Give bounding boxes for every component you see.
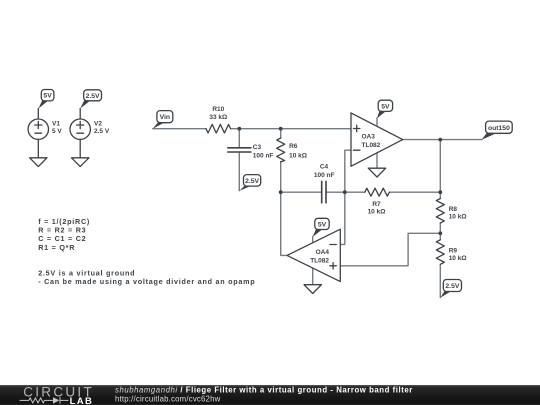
svg-text:10 kΩ: 10 kΩ xyxy=(368,209,386,216)
wire R6 leads xyxy=(280,129,282,138)
wire node to C4 xyxy=(281,191,321,193)
svg-text:TL082: TL082 xyxy=(310,257,329,264)
svg-text:shubhamgandhi / Fliege Filter: shubhamgandhi / Fliege Filter with a vir… xyxy=(115,385,413,394)
node at output xyxy=(438,138,442,142)
wire R9 leads and down to 2.5V flag xyxy=(439,233,441,240)
svg-text:5V: 5V xyxy=(43,93,52,100)
svg-text:Vin: Vin xyxy=(160,114,170,121)
ground (V2) xyxy=(72,158,89,167)
wire V2 to ground xyxy=(79,139,81,157)
wire node to R7 and R7 to node xyxy=(345,191,365,193)
svg-text:http://circuitlab.com/cvc62hw: http://circuitlab.com/cvc62hw xyxy=(115,395,221,404)
voltage source V1 xyxy=(28,109,62,140)
node R6 bottom xyxy=(279,190,283,194)
OA4 top power pin xyxy=(312,237,314,243)
wire V1 to ground xyxy=(37,139,39,157)
power flag 5V (OA3) xyxy=(377,100,393,118)
resistor R9 xyxy=(436,240,466,264)
wire OA3 output to out150 xyxy=(403,139,482,141)
svg-text:out150: out150 xyxy=(488,125,510,132)
svg-text:100 nF: 100 nF xyxy=(314,172,335,179)
svg-text:10 kΩ: 10 kΩ xyxy=(449,214,467,221)
ground (OA4) xyxy=(304,285,321,294)
svg-text:2.5V: 2.5V xyxy=(245,178,259,185)
svg-text:R9: R9 xyxy=(449,248,458,255)
OA3 bottom power pin xyxy=(376,153,378,168)
net flag out150 xyxy=(482,121,513,140)
voltage source V2 xyxy=(70,109,110,140)
svg-text:R6: R6 xyxy=(289,143,298,150)
svg-text:C4: C4 xyxy=(320,163,329,170)
svg-text:OA4: OA4 xyxy=(316,249,330,256)
net flag Vin xyxy=(153,111,173,129)
resistor R6 xyxy=(277,138,307,162)
ground (OA3) xyxy=(368,168,385,177)
power flag 2.5V (R9) xyxy=(440,280,461,298)
svg-text:V2: V2 xyxy=(94,120,102,127)
op-amp OA3 xyxy=(351,113,403,166)
svg-text:R8: R8 xyxy=(449,206,458,213)
svg-text:LAB: LAB xyxy=(70,396,94,405)
resistor R10 xyxy=(206,106,231,133)
wire R8 leads xyxy=(439,192,441,198)
OA3 top power pin xyxy=(376,118,378,127)
svg-text:5V: 5V xyxy=(318,222,327,229)
capacitor C3 xyxy=(228,144,274,159)
svg-text:C3: C3 xyxy=(253,144,262,151)
power flag 5V (OA4) xyxy=(313,218,329,237)
svg-text:100 nF: 100 nF xyxy=(253,153,274,160)
svg-text:R7: R7 xyxy=(372,201,381,208)
node R8/R9/feedback xyxy=(438,231,442,235)
svg-text:R10: R10 xyxy=(212,106,224,113)
svg-text:10 kΩ: 10 kΩ xyxy=(289,153,307,160)
wire output node down to R7 node xyxy=(439,140,441,193)
power flag 2.5V (C3) xyxy=(239,175,260,191)
node at R10/C3 xyxy=(237,127,241,131)
note text xyxy=(38,217,255,286)
svg-text:TL082: TL082 xyxy=(362,142,381,149)
CircuitLab logo xyxy=(20,384,94,405)
svg-text:5V: 5V xyxy=(381,104,390,111)
svg-text:2.5V: 2.5V xyxy=(445,283,459,290)
svg-text:33 kΩ: 33 kΩ xyxy=(209,114,227,121)
svg-text:10 kΩ: 10 kΩ xyxy=(449,255,467,262)
node at C4/R7/OA3- xyxy=(343,190,347,194)
OA4 bottom power pin xyxy=(312,268,314,285)
ground (V1) xyxy=(30,158,47,167)
wire OA4 output to R6 bottom node xyxy=(281,192,287,255)
wire node to C3 and C3 to 2.5V flag xyxy=(238,129,240,147)
wire feedback node to OA4 + input xyxy=(340,233,440,265)
node at R6 top xyxy=(279,127,283,131)
svg-text:2.5V: 2.5V xyxy=(86,93,100,100)
power flag 5V (V1) xyxy=(38,90,54,109)
svg-text:V1: V1 xyxy=(52,120,60,127)
capacitor C4 xyxy=(314,163,335,203)
resistor R8 xyxy=(436,199,466,224)
power flag 2.5V (V2) xyxy=(80,90,101,109)
svg-text:R1 = Q*R: R1 = Q*R xyxy=(38,243,75,252)
wire C4 to node xyxy=(327,191,345,193)
svg-text:- Can be made using a voltage: - Can be made using a voltage divider an… xyxy=(38,277,255,286)
svg-text:OA3: OA3 xyxy=(362,134,376,141)
op-amp OA4 xyxy=(287,229,340,281)
node at R7/R8/out xyxy=(438,190,442,194)
wire Vin to OA3 + input xyxy=(153,128,206,130)
wire OA3 - input to OA4 - input xyxy=(340,150,351,244)
svg-text:5 V: 5 V xyxy=(52,128,62,135)
svg-text:2.5 V: 2.5 V xyxy=(94,128,110,135)
resistor R7 xyxy=(365,188,390,215)
